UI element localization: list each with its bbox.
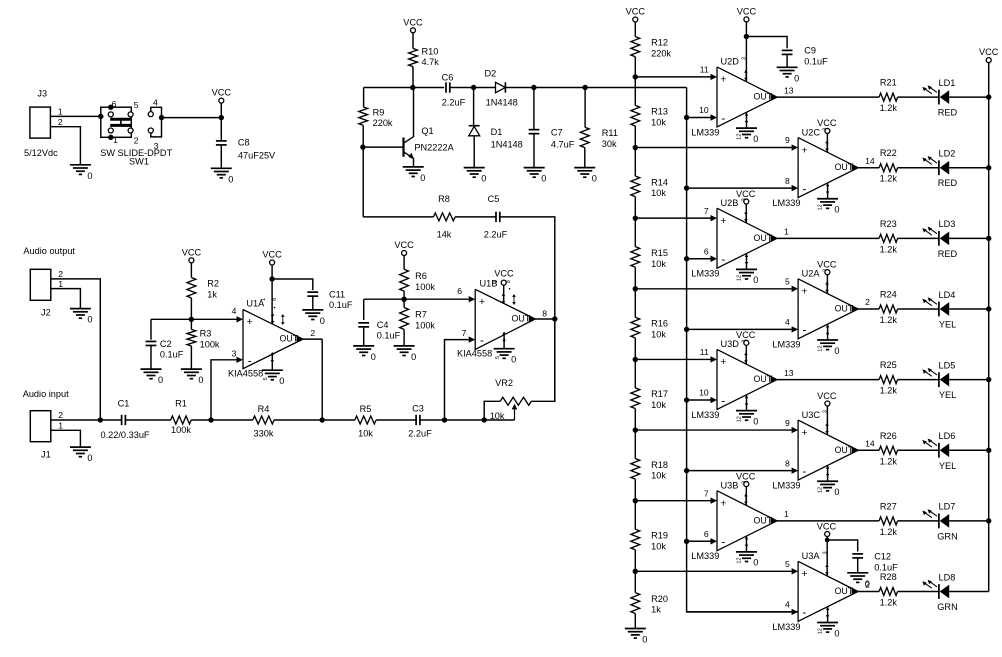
wire output U3C [858, 449, 879, 451]
svg-text:C5: C5 [488, 194, 500, 204]
svg-text:OUT: OUT [835, 445, 854, 455]
svg-text:1k: 1k [651, 605, 661, 615]
svg-text:220k: 220k [373, 118, 393, 128]
svg-text:U2C: U2C [802, 127, 821, 137]
resistor R9 [359, 88, 393, 148]
wire plus input U3C [633, 427, 792, 432]
svg-text:OUT: OUT [754, 233, 773, 243]
svg-text:U2D: U2D [721, 57, 740, 67]
svg-text:12: 12 [737, 557, 743, 563]
svg-text:OUT: OUT [835, 303, 854, 313]
svg-text:YEL: YEL [939, 461, 956, 471]
resistor R10 [409, 46, 440, 87]
svg-text:0: 0 [541, 174, 546, 184]
ground C4 [353, 346, 376, 362]
svg-text:0.1uF: 0.1uF [377, 331, 401, 341]
svg-text:100k: 100k [415, 320, 435, 330]
svg-text:VCC: VCC [212, 88, 232, 98]
svg-text:4: 4 [785, 600, 790, 610]
power VCC U3A [817, 521, 837, 576]
svg-text:4.7k: 4.7k [422, 57, 440, 67]
comparator U3A LM339 [772, 551, 870, 632]
svg-text:0: 0 [753, 275, 758, 285]
ground U3B [736, 536, 758, 568]
resistor R27 [879, 501, 939, 537]
svg-text:R4: R4 [258, 404, 270, 414]
svg-text:R23: R23 [880, 219, 897, 229]
svg-text:13: 13 [784, 85, 794, 95]
wire plus input U3A [633, 569, 792, 574]
svg-text:OUT: OUT [835, 586, 854, 596]
svg-text:1.2k: 1.2k [880, 174, 898, 184]
ground U1A [262, 352, 285, 386]
LED LD5 YEL [922, 360, 991, 400]
svg-text:LD8: LD8 [939, 572, 956, 582]
node R6 R7 junction [364, 286, 469, 302]
ground U2A [817, 324, 839, 356]
svg-text:1: 1 [784, 227, 789, 237]
svg-text:10: 10 [699, 388, 709, 398]
svg-text:VCC: VCC [737, 6, 757, 16]
svg-text:0: 0 [87, 453, 92, 463]
node C7 tap [531, 85, 585, 90]
wire J2 pin2 to input node [51, 279, 101, 420]
svg-text:U3A: U3A [802, 551, 821, 561]
wire J2 pin1 to ground [51, 289, 81, 309]
svg-text:0: 0 [794, 73, 799, 83]
svg-text:OUT: OUT [280, 334, 299, 344]
svg-text:11: 11 [700, 65, 709, 75]
svg-text:SW1: SW1 [129, 157, 149, 167]
svg-text:R5: R5 [360, 404, 372, 414]
svg-text:C9: C9 [804, 46, 816, 56]
svg-text:-: - [721, 395, 725, 407]
svg-text:OUT: OUT [754, 515, 773, 525]
svg-text:-: - [721, 113, 725, 125]
capacitor C8 [216, 137, 276, 168]
svg-text:330k: 330k [254, 429, 274, 439]
power VCC R6 [394, 240, 414, 269]
svg-text:1.2k: 1.2k [880, 315, 898, 325]
node U1A output [320, 339, 325, 423]
ground U3D [736, 395, 758, 427]
wire plus input U3B [633, 498, 711, 503]
svg-text:11: 11 [700, 347, 709, 357]
power VCC U3C [817, 391, 837, 435]
svg-text:Audio input: Audio input [23, 389, 69, 399]
svg-text:U3C: U3C [802, 410, 821, 420]
svg-text:OUT: OUT [835, 162, 854, 172]
svg-text:R22: R22 [880, 148, 897, 158]
connector J1 [30, 410, 63, 459]
svg-text:VCC: VCC [394, 240, 414, 250]
resistor R19 [631, 501, 668, 572]
wire J3 pin1 to SW1 [50, 114, 103, 119]
svg-text:1: 1 [58, 421, 63, 431]
svg-text:1: 1 [493, 280, 499, 283]
resistor R12 [631, 37, 672, 77]
svg-text:0.1uF: 0.1uF [874, 562, 898, 572]
svg-text:+: + [479, 296, 485, 308]
svg-text:0: 0 [320, 316, 325, 326]
svg-text:R26: R26 [880, 431, 897, 441]
LED LD1 RED [922, 78, 991, 118]
svg-text:C11: C11 [329, 289, 345, 299]
svg-text:1.2k: 1.2k [880, 527, 898, 537]
svg-text:-: - [480, 335, 484, 347]
svg-text:+: + [247, 316, 253, 328]
ground ladder [625, 629, 648, 645]
wire minus input U2A [684, 327, 792, 332]
svg-text:2.2uF: 2.2uF [408, 429, 432, 439]
svg-text:RED: RED [938, 108, 958, 118]
svg-text:4: 4 [232, 306, 237, 316]
LED LD4 YEL [922, 290, 991, 330]
svg-text:1: 1 [58, 107, 63, 117]
svg-text:U2B: U2B [721, 198, 739, 208]
svg-text:12: 12 [818, 346, 824, 352]
power VCC U1A [262, 250, 282, 325]
svg-text:2: 2 [58, 269, 63, 279]
ground U2C [817, 183, 839, 215]
svg-text:4.7uF: 4.7uF [551, 140, 575, 150]
svg-text:1.2k: 1.2k [880, 103, 898, 113]
svg-text:R21: R21 [880, 78, 897, 88]
svg-text:7: 7 [704, 206, 709, 216]
wire J3 pin2 to ground [50, 127, 80, 165]
ground J3 [70, 165, 93, 181]
svg-text:10k: 10k [651, 400, 666, 410]
wire minus input U3C [684, 468, 792, 473]
svg-text:J2: J2 [41, 308, 51, 318]
LED LD3 RED [922, 219, 991, 259]
svg-text:C1: C1 [118, 399, 130, 409]
svg-text:LD6: LD6 [939, 431, 956, 441]
wire plus input U2A [633, 286, 792, 291]
svg-text:C12: C12 [874, 552, 891, 562]
svg-text:0: 0 [87, 171, 92, 181]
wire output U2A [858, 308, 879, 310]
ground R3 [181, 369, 204, 385]
svg-text:VCC: VCC [817, 118, 837, 128]
switch SW1 SW SLIDE-DPDT [100, 98, 172, 167]
svg-text:RED: RED [938, 178, 958, 188]
resistor R22 [879, 148, 939, 184]
svg-text:0: 0 [279, 376, 284, 386]
svg-text:10k: 10k [651, 188, 666, 198]
svg-text:220k: 220k [651, 49, 671, 59]
svg-text:6: 6 [457, 286, 462, 296]
svg-text:10k: 10k [651, 118, 666, 128]
svg-text:1k: 1k [207, 290, 217, 300]
capacitor C5 [484, 194, 555, 319]
svg-text:-: - [721, 254, 725, 266]
svg-text:LM339: LM339 [691, 127, 719, 137]
ground U2B [736, 254, 758, 286]
diode D2 [485, 69, 534, 108]
node U1B inverting tap [442, 340, 484, 423]
svg-text:J3: J3 [37, 89, 47, 99]
svg-text:LD5: LD5 [939, 360, 956, 370]
capacitor C11 [272, 279, 353, 310]
svg-text:LM339: LM339 [691, 269, 719, 279]
svg-text:0: 0 [834, 205, 839, 215]
wire signal bus [687, 88, 799, 612]
svg-text:2.2uF: 2.2uF [484, 230, 508, 240]
node R11 tap [582, 85, 686, 90]
svg-text:OUT: OUT [754, 374, 773, 384]
wire feedback row [363, 216, 433, 218]
wire J1 pin1 to ground [51, 430, 81, 447]
svg-text:0: 0 [865, 579, 870, 589]
comparator U2B LM339 [691, 198, 789, 279]
svg-text:GRN: GRN [937, 602, 957, 612]
svg-text:14: 14 [865, 438, 875, 448]
node R2 R3 junction [151, 306, 237, 322]
svg-text:C4: C4 [377, 320, 389, 330]
svg-text:100k: 100k [415, 282, 435, 292]
ground R11 [574, 168, 597, 184]
svg-text:-: - [248, 355, 252, 367]
svg-text:0: 0 [592, 174, 597, 184]
svg-text:OUT: OUT [512, 314, 531, 324]
svg-text:100k: 100k [171, 425, 191, 435]
svg-text:LM339: LM339 [772, 481, 800, 491]
svg-text:LD3: LD3 [939, 219, 956, 229]
svg-text:0.1uF: 0.1uF [160, 349, 184, 359]
svg-text:12: 12 [737, 275, 743, 281]
ground D1 [464, 168, 487, 184]
node inverting input U1A [208, 360, 236, 423]
svg-text:VCC: VCC [736, 471, 756, 481]
svg-text:0: 0 [511, 355, 516, 365]
svg-text:0.22/0.33uF: 0.22/0.33uF [101, 430, 150, 440]
svg-text:12: 12 [737, 134, 743, 140]
ground C11 [302, 310, 325, 326]
svg-text:1N4148: 1N4148 [491, 139, 523, 149]
svg-text:KIA4558: KIA4558 [457, 348, 492, 358]
svg-text:8: 8 [542, 309, 547, 319]
svg-text:OUT: OUT [754, 92, 773, 102]
resistor R7 [400, 299, 436, 346]
svg-text:30k: 30k [602, 139, 617, 149]
wire output U2B [777, 237, 879, 239]
svg-text:0: 0 [834, 628, 839, 638]
svg-text:47uF25V: 47uF25V [238, 150, 276, 160]
svg-text:10k: 10k [651, 471, 666, 481]
resistor R18 [631, 430, 668, 501]
wire output U2D [777, 96, 879, 98]
svg-text:PN2222A: PN2222A [414, 143, 454, 153]
svg-text:1.2k: 1.2k [880, 386, 898, 396]
svg-text:9: 9 [785, 418, 790, 428]
svg-text:U3B: U3B [721, 480, 739, 490]
ground J1 [70, 447, 93, 463]
resistor R6 [400, 269, 436, 299]
svg-text:0: 0 [834, 346, 839, 356]
resistor R24 [879, 289, 939, 325]
svg-text:R18: R18 [651, 460, 668, 470]
resistor R16 [631, 289, 668, 360]
power VCC ladder [626, 7, 646, 37]
resistor R14 [631, 148, 668, 219]
svg-text:13: 13 [784, 368, 794, 378]
svg-text:R27: R27 [880, 501, 897, 511]
wire minus input U2D [684, 115, 711, 120]
svg-text:RED: RED [938, 249, 958, 259]
svg-text:6: 6 [704, 246, 709, 256]
svg-text:R28: R28 [880, 572, 897, 582]
svg-text:0: 0 [642, 635, 647, 645]
svg-text:8: 8 [506, 280, 512, 283]
svg-text:2.2uF: 2.2uF [442, 97, 466, 107]
svg-text:C8: C8 [238, 137, 250, 147]
svg-text:R24: R24 [880, 289, 897, 299]
svg-text:U3D: U3D [721, 339, 740, 349]
svg-text:Audio output: Audio output [23, 246, 75, 256]
label Audio input [23, 389, 69, 399]
svg-text:D1: D1 [491, 127, 503, 137]
svg-text:6: 6 [112, 99, 117, 109]
resistor R1 [171, 399, 211, 435]
svg-text:R14: R14 [651, 177, 668, 187]
node D1 tap [471, 85, 496, 90]
ground C12 [847, 573, 870, 589]
ground U3A [817, 607, 839, 639]
comparator U3B LM339 [691, 480, 789, 561]
ground U1B [494, 332, 517, 365]
connector J2 [30, 269, 63, 318]
svg-text:R2: R2 [207, 279, 219, 289]
svg-text:0: 0 [228, 174, 233, 184]
power VCC U2C [817, 118, 837, 152]
svg-text:5: 5 [134, 100, 139, 110]
svg-text:LM339: LM339 [772, 339, 800, 349]
power VCC U2D [737, 6, 757, 81]
wire minus input U2B [684, 256, 711, 261]
svg-text:8: 8 [785, 176, 790, 186]
resistor R13 [631, 77, 668, 148]
diode D1 [469, 88, 523, 168]
svg-text:0: 0 [753, 134, 758, 144]
svg-text:2: 2 [865, 297, 870, 307]
svg-text:10k: 10k [651, 329, 666, 339]
svg-text:0: 0 [87, 315, 92, 325]
comparator U2C LM339 [772, 127, 874, 208]
svg-text:LM339: LM339 [772, 198, 800, 208]
svg-text:8: 8 [272, 298, 278, 301]
svg-text:R25: R25 [880, 360, 897, 370]
wire minus input U3D [684, 397, 711, 402]
power VCC U3D [736, 330, 756, 364]
resistor R26 [879, 431, 939, 467]
svg-text:Q1: Q1 [421, 126, 433, 136]
svg-text:0.1uF: 0.1uF [804, 57, 828, 67]
svg-text:5: 5 [785, 559, 790, 569]
potentiometer VR2 [482, 319, 555, 423]
svg-text:8: 8 [785, 458, 790, 468]
svg-text:12: 12 [818, 628, 824, 634]
svg-text:LD7: LD7 [939, 502, 956, 512]
svg-text:+: + [720, 356, 726, 368]
svg-text:2: 2 [58, 410, 63, 420]
svg-text:1: 1 [261, 298, 267, 301]
ground U3C [817, 465, 839, 497]
op-amp U1B [457, 268, 558, 358]
ground U2D [736, 112, 758, 144]
svg-text:R9: R9 [373, 107, 385, 117]
wire SW1 to VCC node [162, 117, 222, 119]
svg-text:R3: R3 [200, 329, 212, 339]
ground C2 [141, 369, 164, 385]
capacitor C9 [746, 37, 828, 68]
wire plus input U2D [633, 74, 711, 79]
ground J2 [70, 309, 93, 325]
svg-text:0: 0 [753, 558, 758, 568]
svg-text:VCC: VCC [817, 521, 837, 531]
svg-text:VCC: VCC [626, 7, 646, 17]
svg-text:C7: C7 [551, 128, 563, 138]
svg-text:10k: 10k [358, 429, 373, 439]
capacitor C3 [408, 404, 444, 439]
resistor R25 [879, 360, 939, 396]
svg-text:R11: R11 [602, 128, 618, 138]
resistor R8 [434, 194, 496, 240]
svg-text:6: 6 [704, 529, 709, 539]
svg-text:0: 0 [198, 375, 203, 385]
wire output U3B [777, 520, 879, 522]
svg-text:+: + [720, 497, 726, 509]
svg-text:R8: R8 [438, 194, 450, 204]
wire minus input U3B [684, 539, 711, 544]
svg-text:D2: D2 [485, 69, 497, 79]
svg-text:U2A: U2A [802, 269, 821, 279]
svg-text:+: + [801, 568, 807, 580]
svg-text:VCC: VCC [817, 391, 837, 401]
svg-text:+: + [720, 215, 726, 227]
resistor R28 [879, 572, 939, 608]
wire plus input U2C [633, 145, 792, 150]
resistor R4 [211, 404, 322, 439]
svg-text:1: 1 [113, 135, 118, 145]
wire U1B out to VR2 [554, 319, 556, 401]
ground C7 [524, 168, 547, 184]
connector J3 [24, 89, 63, 159]
capacitor C1 [101, 399, 171, 441]
svg-text:R17: R17 [651, 389, 668, 399]
svg-text:10k: 10k [651, 259, 666, 269]
comparator U2A LM339 [772, 269, 870, 350]
resistor R21 [879, 78, 939, 114]
node detector collector [364, 85, 445, 90]
svg-text:4: 4 [153, 98, 158, 108]
svg-text:+: + [801, 144, 807, 156]
svg-text:10: 10 [699, 105, 709, 115]
svg-text:+: + [801, 286, 807, 298]
svg-text:12: 12 [818, 204, 824, 210]
LED LD7 GRN [922, 502, 991, 542]
svg-text:VCC: VCC [182, 247, 202, 257]
svg-text:7: 7 [462, 328, 467, 338]
svg-text:LD2: LD2 [939, 149, 956, 159]
LED LD6 YEL [922, 431, 991, 471]
svg-text:-: - [802, 183, 806, 195]
svg-text:VCC: VCC [494, 268, 514, 278]
svg-text:KIA4558: KIA4558 [228, 369, 263, 379]
svg-text:1.2k: 1.2k [880, 456, 898, 466]
power VCC LED rail [979, 47, 999, 591]
wire plus input U2B [633, 215, 711, 220]
